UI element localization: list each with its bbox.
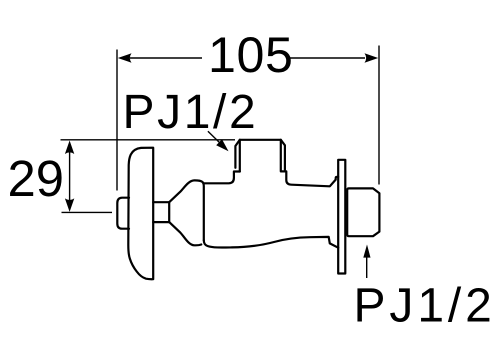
svg-text:29: 29 <box>8 150 65 207</box>
dimension line 29 <box>69 152 71 200</box>
extension line top of 29 <box>61 139 236 141</box>
handle bulb <box>169 180 204 240</box>
leader line bottom PJ1/2 <box>366 256 368 278</box>
flange <box>128 148 153 280</box>
svg-text:PJ1/2: PJ1/2 <box>123 86 259 139</box>
arrowhead 29 top <box>65 141 74 155</box>
outlet nut PJ1/2 <box>347 188 379 236</box>
top port <box>240 140 338 187</box>
port left thread chamfer <box>235 140 239 168</box>
outlet flange plate <box>338 160 345 274</box>
leader line top PJ1/2 <box>208 131 222 145</box>
port right thread chamfer <box>281 140 285 170</box>
arrowhead 105 left <box>118 53 132 62</box>
arrowhead 29 bottom <box>65 198 74 212</box>
svg-text:105: 105 <box>208 27 294 83</box>
extension line right of 105 <box>378 46 380 185</box>
arrowhead 105 right <box>365 53 379 62</box>
dimension line 105 right segment <box>290 57 365 59</box>
stem shaft <box>153 202 169 222</box>
arrowhead leader bottom PJ1/2 <box>363 245 370 258</box>
dimension line 105 left segment <box>130 57 202 59</box>
extension line left of 105 <box>116 50 118 191</box>
wall stub <box>117 198 129 229</box>
extension line bottom of 29 <box>62 211 113 213</box>
svg-text:PJ1/2: PJ1/2 <box>354 280 496 333</box>
arrowhead leader top PJ1/2 <box>216 139 228 151</box>
body bottom curve <box>204 237 338 248</box>
valve body top-left <box>204 172 240 184</box>
